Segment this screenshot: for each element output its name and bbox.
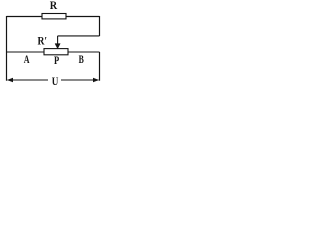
wire pot left (A side) xyxy=(7,51,45,53)
wire right vertical upper xyxy=(99,16,101,36)
wire left vertical xyxy=(6,16,8,81)
svg-text:U: U xyxy=(52,76,59,88)
wire top (resistor to top-right corner) xyxy=(66,16,100,18)
potentiometer R' body xyxy=(44,49,68,55)
wire wiper vertical xyxy=(57,36,59,45)
svg-text:A: A xyxy=(24,54,30,66)
wire top (left vertical to resistor) xyxy=(7,16,43,18)
resistor R xyxy=(42,14,66,19)
svg-text:R: R xyxy=(50,0,58,12)
svg-text:B: B xyxy=(79,54,84,66)
wire wiper feed horizontal xyxy=(58,35,100,37)
voltage U dimension line left segment xyxy=(8,79,49,81)
wire pot right (B side) xyxy=(68,51,100,53)
voltage U dimension right arrowhead xyxy=(93,78,99,82)
voltage U dimension line right segment xyxy=(61,79,99,81)
svg-text:R′: R′ xyxy=(38,36,48,48)
wire right vertical lower xyxy=(99,52,101,81)
svg-text:P: P xyxy=(54,55,59,67)
wiper arrow P xyxy=(55,44,60,49)
voltage U dimension left arrowhead xyxy=(7,78,13,82)
